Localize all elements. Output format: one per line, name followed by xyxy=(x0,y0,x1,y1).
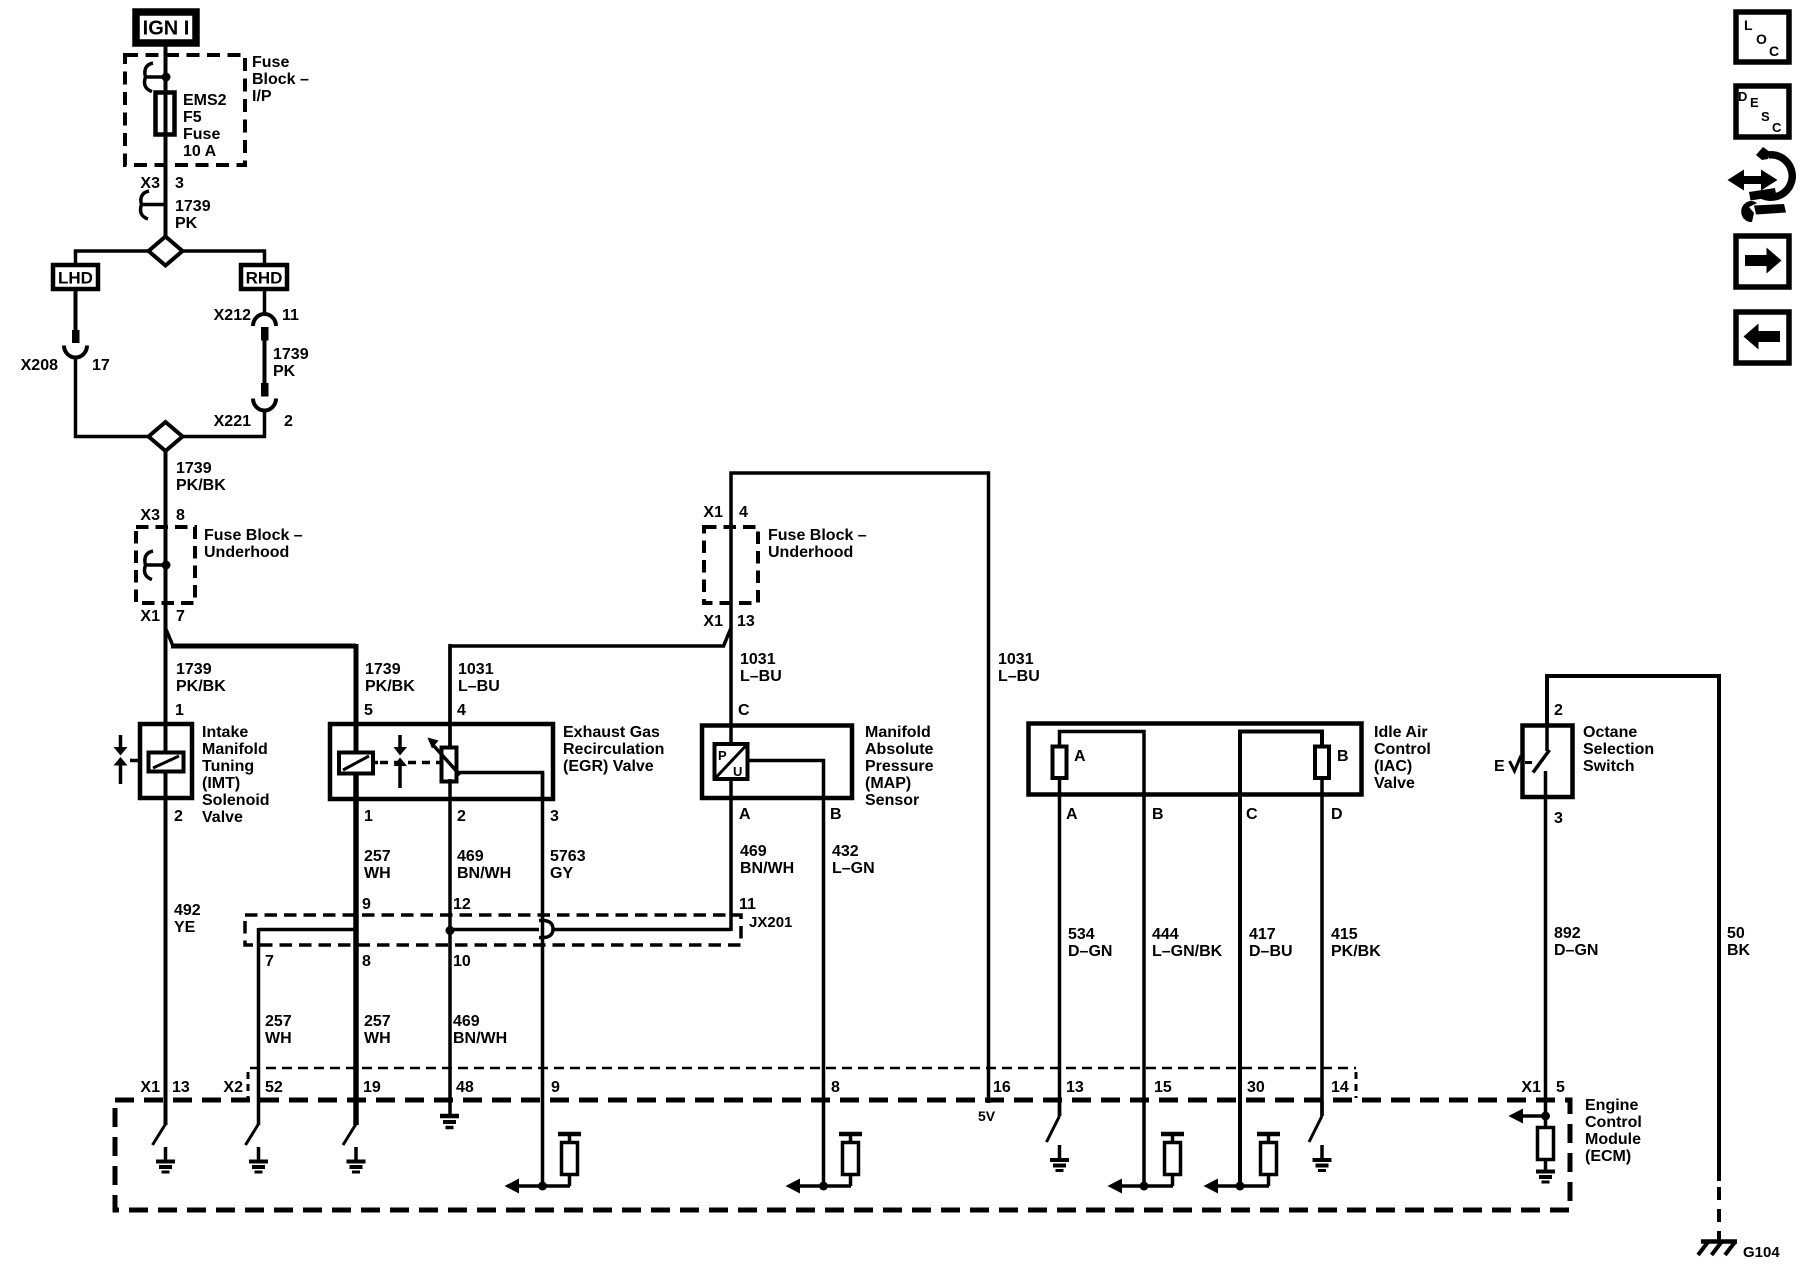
measurement arrow and dot pin X1-5 xyxy=(1509,1109,1551,1124)
svg-text:X1: X1 xyxy=(1521,1079,1541,1096)
svg-text:X208: X208 xyxy=(21,357,58,374)
wire 415 PK/BK IAC D to ECM pin 14 xyxy=(1320,778,1324,1116)
wire 257 WH EGR pin 1 to ECM pin 19 xyxy=(353,772,359,1125)
svg-text:WH: WH xyxy=(364,1030,391,1047)
svg-text:X212: X212 xyxy=(214,307,251,324)
svg-text:JX201: JX201 xyxy=(749,914,792,931)
ECM driver switch pin 19 xyxy=(343,1124,356,1145)
pin label 1 (EGR bottom) xyxy=(364,808,373,825)
svg-text:Switch: Switch xyxy=(1583,758,1635,775)
label Manifold Absolute Pressure (MAP) Sensor xyxy=(865,724,934,809)
svg-text:257: 257 xyxy=(265,1013,292,1030)
pin label 14 (ECM) xyxy=(1331,1079,1349,1096)
svg-text:7: 7 xyxy=(176,608,185,625)
IAC coil B winding xyxy=(1240,732,1329,795)
pull-up resistor pin 15 xyxy=(1161,1134,1184,1186)
ECM thick dashed outline xyxy=(115,1100,1570,1210)
svg-text:WH: WH xyxy=(364,865,391,882)
wire 469 BN/WH EGR pin 2 to ECM pin 48 xyxy=(448,779,452,1114)
svg-text:X1: X1 xyxy=(703,613,723,630)
switch actuator label E xyxy=(1494,758,1505,775)
svg-text:4: 4 xyxy=(739,504,748,521)
svg-text:Fuse Block –: Fuse Block – xyxy=(768,527,867,544)
node diamond splice top xyxy=(149,237,183,266)
svg-text:415: 415 xyxy=(1331,926,1358,943)
wire label 415 PK/BK xyxy=(1331,926,1381,960)
wire EGR pin4 into potentiometer xyxy=(448,646,452,749)
component box IAC valve xyxy=(1029,724,1362,795)
svg-text:Manifold: Manifold xyxy=(865,724,931,741)
svg-text:8: 8 xyxy=(831,1079,840,1096)
svg-text:X221: X221 xyxy=(214,413,251,430)
svg-text:D: D xyxy=(1331,806,1343,823)
wire X208 to bottom diamond xyxy=(74,358,78,439)
svg-text:RHD: RHD xyxy=(246,269,283,288)
svg-text:P: P xyxy=(718,748,727,763)
svg-text:I/P: I/P xyxy=(252,88,272,105)
connector X3 pin 3 labels xyxy=(140,175,184,192)
wire 534 D-GN IAC A to ECM pin 13 xyxy=(1058,778,1062,1116)
pull-up resistor pin 30 xyxy=(1257,1134,1280,1186)
wire branch 1031 L-BU to EGR pin 4 xyxy=(450,644,725,749)
wire 1739 PK between X212 and X221 xyxy=(263,341,267,384)
svg-text:432: 432 xyxy=(832,843,859,860)
svg-text:534: 534 xyxy=(1068,926,1095,943)
svg-text:Solenoid: Solenoid xyxy=(202,792,270,809)
svg-text:C: C xyxy=(738,702,750,719)
svg-text:10: 10 xyxy=(453,953,471,970)
wire top loop LHD/RHD horizontal xyxy=(74,249,266,253)
pin label A (IAC bottom) xyxy=(1066,806,1078,823)
pin label A (MAP bottom) xyxy=(739,806,751,823)
fuse block I/P terminal hook with junction xyxy=(145,63,171,92)
svg-text:S: S xyxy=(1761,109,1770,124)
svg-text:52: 52 xyxy=(265,1079,283,1096)
ground symbol pin X1-5 xyxy=(1536,1172,1555,1183)
svg-text:492: 492 xyxy=(174,902,201,919)
wire label 1739 PK/BK xyxy=(176,460,226,494)
svg-text:Selection: Selection xyxy=(1583,741,1654,758)
pin label 2 (octane top) xyxy=(1554,702,1563,719)
pull-down resistor pin X1-5 xyxy=(1538,1116,1554,1170)
svg-text:D–BU: D–BU xyxy=(1249,943,1293,960)
svg-text:L–BU: L–BU xyxy=(458,678,500,695)
svg-text:11: 11 xyxy=(739,896,756,913)
svg-text:X1: X1 xyxy=(140,1079,160,1096)
svg-text:892: 892 xyxy=(1554,925,1581,942)
wire 492 YE IMT pin 2 to ECM pin 13 xyxy=(164,771,168,1125)
wire octane switch pin 2 top loop and 50 BK down xyxy=(1547,676,1719,1181)
pressure transducer symbol P/U xyxy=(715,744,748,779)
svg-text:Absolute: Absolute xyxy=(865,741,934,758)
wire label 469 BN/WH (MAP A) xyxy=(740,843,794,877)
ground symbol pin 13 xyxy=(156,1147,175,1172)
nav icon arrow left xyxy=(1736,312,1789,363)
svg-text:3: 3 xyxy=(1554,810,1563,827)
svg-text:19: 19 xyxy=(363,1079,381,1096)
component box EGR valve xyxy=(330,724,553,799)
svg-text:PK: PK xyxy=(175,215,198,232)
svg-text:BN/WH: BN/WH xyxy=(453,1030,507,1047)
pin label 19 (ECM) xyxy=(363,1079,381,1096)
pin label 13 (ECM right) xyxy=(1066,1079,1084,1096)
svg-text:7: 7 xyxy=(265,953,274,970)
wire stub to LHD xyxy=(74,250,78,264)
svg-text:257: 257 xyxy=(364,848,391,865)
svg-text:C: C xyxy=(1772,120,1782,135)
wire 5763 GY EGR pin 3 to ECM pin 9 xyxy=(541,772,545,1186)
svg-text:12: 12 xyxy=(453,896,471,913)
svg-text:13: 13 xyxy=(737,613,755,630)
svg-text:1739: 1739 xyxy=(365,661,401,678)
wire main 1739 PK/BK to IMT pin 1 xyxy=(164,628,168,753)
svg-text:2: 2 xyxy=(457,808,466,825)
svg-text:C: C xyxy=(1246,806,1258,823)
ground symbol pin 14 xyxy=(1313,1145,1332,1171)
svg-text:IGN I: IGN I xyxy=(143,18,190,40)
svg-text:X1: X1 xyxy=(140,608,160,625)
svg-text:Block –: Block – xyxy=(252,71,309,88)
connector X1 pin 4 labels xyxy=(703,504,748,521)
component box IMT solenoid valve xyxy=(140,724,192,798)
measurement arrow and dot pin 9 xyxy=(505,1179,571,1194)
fuse block underhood terminal hook xyxy=(145,551,171,580)
wire label 444 L-GN/BK xyxy=(1152,926,1223,960)
measurement arrow and dot pin 8 xyxy=(786,1179,852,1194)
svg-text:3: 3 xyxy=(550,808,559,825)
connector X2 left tick xyxy=(247,1072,250,1098)
pull-up resistor pin 9 xyxy=(558,1134,581,1186)
ground symbol pin 19 xyxy=(347,1147,366,1172)
svg-text:X3: X3 xyxy=(140,507,160,524)
svg-text:PK/BK: PK/BK xyxy=(176,477,226,494)
svg-text:8: 8 xyxy=(362,953,371,970)
pin label X1 13 (ECM) xyxy=(140,1079,189,1096)
connector X208 pin 17 (bar and cup) xyxy=(64,330,87,358)
svg-text:Tuning: Tuning xyxy=(202,758,254,775)
svg-text:GY: GY xyxy=(550,865,573,882)
connector X1 pin 13 labels xyxy=(703,613,754,630)
svg-text:L–BU: L–BU xyxy=(998,668,1040,685)
svg-text:1739: 1739 xyxy=(175,198,211,215)
pin label B (MAP bottom) xyxy=(830,806,842,823)
svg-text:D: D xyxy=(1738,89,1747,104)
svg-text:13: 13 xyxy=(1066,1079,1084,1096)
wire label 1739 PK/BK (EGR branch) xyxy=(365,661,415,695)
svg-text:BN/WH: BN/WH xyxy=(457,865,511,882)
svg-text:A: A xyxy=(1074,748,1086,765)
svg-text:Valve: Valve xyxy=(1374,775,1415,792)
svg-text:Idle Air: Idle Air xyxy=(1374,724,1428,741)
power symbol IGN I xyxy=(136,12,196,43)
component box octane selection switch xyxy=(1523,726,1573,798)
pin label 8 (ECM) xyxy=(831,1079,840,1096)
nav icon arrow right xyxy=(1736,236,1789,287)
svg-text:A: A xyxy=(1066,806,1078,823)
pin label 48 (ECM) xyxy=(456,1079,474,1096)
solenoid coil EGR xyxy=(339,753,378,774)
wire label 257 WH (pin 7 branch) xyxy=(265,1013,292,1047)
wire X221 to bottom diamond xyxy=(263,411,267,439)
value label EMS2 F5 Fuse 10 A xyxy=(183,92,227,160)
wire LHD down xyxy=(74,289,78,330)
svg-text:YE: YE xyxy=(174,919,196,936)
svg-text:5V: 5V xyxy=(978,1108,996,1124)
pull-up resistor pin 8 xyxy=(839,1134,862,1186)
label Fuse Block - Underhood (right) xyxy=(768,527,867,561)
pin label 2 (EGR bottom) xyxy=(457,808,466,825)
svg-text:L–GN: L–GN xyxy=(832,860,875,877)
wire label 5763 GY xyxy=(550,848,586,882)
wire jog to branch xyxy=(166,628,174,646)
junction block JX201 dashed outline xyxy=(245,915,741,945)
svg-text:LHD: LHD xyxy=(58,269,93,288)
pin label 1 (IMT top) xyxy=(175,702,184,719)
connector X3 pin 8 labels xyxy=(140,507,185,524)
svg-text:PK/BK: PK/BK xyxy=(1331,943,1381,960)
svg-text:5: 5 xyxy=(1556,1079,1565,1096)
wire 1031 L-BU top loop (fuse block X1-4 over to ECM pin 16) xyxy=(731,473,989,1103)
svg-text:11: 11 xyxy=(282,307,299,324)
svg-text:Fuse: Fuse xyxy=(183,126,220,143)
svg-text:Intake: Intake xyxy=(202,724,248,741)
svg-text:1: 1 xyxy=(364,808,373,825)
node diamond splice bottom xyxy=(149,422,183,451)
pin label 12 (JX201 top) xyxy=(453,896,471,913)
svg-text:BN/WH: BN/WH xyxy=(740,860,794,877)
svg-text:A: A xyxy=(739,806,751,823)
pin label 3 (EGR bottom) xyxy=(550,808,559,825)
svg-text:5763: 5763 xyxy=(550,848,586,865)
wire label 257 WH (pin 8 branch) xyxy=(364,1013,391,1047)
svg-text:Valve: Valve xyxy=(202,809,243,826)
wire label 892 D-GN xyxy=(1554,925,1598,959)
solenoid coil IMT xyxy=(149,753,184,772)
svg-text:L–BU: L–BU xyxy=(740,668,782,685)
pin label 30 (ECM) xyxy=(1247,1079,1265,1096)
measurement arrow and dot pin 30 xyxy=(1204,1179,1270,1194)
svg-text:50: 50 xyxy=(1727,925,1745,942)
wire label 50 BK xyxy=(1727,925,1751,959)
wire EGR wiper to pin 3 xyxy=(458,773,543,801)
svg-text:1031: 1031 xyxy=(740,651,776,668)
svg-text:X3: X3 xyxy=(140,175,160,192)
svg-text:(IMT): (IMT) xyxy=(202,775,240,792)
svg-text:15: 15 xyxy=(1154,1079,1172,1096)
wire 469 BN/WH jumper inside JX201 (to MAP A) xyxy=(450,928,731,932)
svg-text:PK/BK: PK/BK xyxy=(365,678,415,695)
wire 257 WH JX201 pin 7 to ECM pin 52 xyxy=(257,928,261,1125)
wire label 1739 PK xyxy=(175,198,211,232)
svg-text:1739: 1739 xyxy=(176,661,212,678)
svg-text:1031: 1031 xyxy=(998,651,1034,668)
svg-text:Underhood: Underhood xyxy=(768,544,853,561)
svg-text:E: E xyxy=(1750,95,1759,110)
potentiometer EGR pintle position sensor xyxy=(428,738,461,782)
pin label 15 (ECM) xyxy=(1154,1079,1172,1096)
svg-text:Underhood: Underhood xyxy=(204,544,289,561)
pin label C (IAC bottom) xyxy=(1246,806,1258,823)
connector X221 pin 2 (bar and cup) xyxy=(253,383,276,411)
wire 417 D-BU IAC C to ECM pin 30 xyxy=(1238,793,1242,1186)
pin label 11 (JX201) xyxy=(739,896,756,913)
fuse block underhood right dashed outline xyxy=(704,527,758,603)
wire through right underhood fuse block to MAP pin C xyxy=(729,523,733,745)
pin label 8 (JX201 bottom) xyxy=(362,953,371,970)
svg-text:3: 3 xyxy=(175,175,184,192)
component box MAP sensor xyxy=(702,726,852,799)
ECM driver switch pin 13 xyxy=(153,1124,166,1145)
svg-text:B: B xyxy=(1337,748,1349,765)
pin label X1 5 (ECM) xyxy=(1521,1079,1565,1096)
svg-text:Control: Control xyxy=(1374,741,1431,758)
ECM driver switch pin 14 xyxy=(1309,1100,1322,1142)
svg-text:F5: F5 xyxy=(183,109,202,126)
dashed actuation link EGR xyxy=(380,761,440,765)
net label 5V xyxy=(978,1108,996,1124)
wire label 257 WH (upper) xyxy=(364,848,391,882)
label Idle Air Control (IAC) Valve xyxy=(1374,724,1431,792)
wire bottom loop horizontal xyxy=(74,435,266,439)
pin label 10 (JX201 bottom) xyxy=(453,953,471,970)
valve arrows (EGR) xyxy=(394,735,408,788)
pin label 2 (IMT bottom) xyxy=(174,808,183,825)
wire 444 L-GN/BK IAC B to ECM pin 15 xyxy=(1142,793,1146,1186)
pin label 16 (ECM) xyxy=(993,1079,1011,1096)
svg-text:9: 9 xyxy=(551,1079,560,1096)
pin label D (IAC bottom) xyxy=(1331,806,1343,823)
svg-text:B: B xyxy=(1152,806,1164,823)
wire 469 BN/WH MAP pin A to JX201 pin 11 xyxy=(729,779,733,931)
svg-text:Exhaust Gas: Exhaust Gas xyxy=(563,724,660,741)
connector X221 labels xyxy=(214,413,293,430)
nav icon DESC xyxy=(1736,86,1789,137)
svg-text:8: 8 xyxy=(176,507,185,524)
svg-text:BK: BK xyxy=(1727,942,1751,959)
pin label 9 (JX201 top) xyxy=(362,896,371,913)
svg-text:X2: X2 xyxy=(223,1079,243,1096)
svg-text:1739: 1739 xyxy=(273,346,309,363)
valve arrows (IMT, outside box) xyxy=(114,735,140,784)
label Engine Control Module (ECM) xyxy=(1585,1097,1642,1165)
label Exhaust Gas Recirculation (EGR) Valve xyxy=(563,724,664,775)
svg-text:X1: X1 xyxy=(703,504,723,521)
IAC coil B label xyxy=(1337,748,1349,765)
wire label 1031 L-BU (EGR pin 4 branch) xyxy=(458,661,500,695)
svg-text:U: U xyxy=(733,764,742,779)
fuse EMS2 F5 10A xyxy=(156,93,175,135)
svg-text:(ECM): (ECM) xyxy=(1585,1148,1631,1165)
wire label 492 YE xyxy=(174,902,201,936)
ground label G104 xyxy=(1743,1244,1780,1261)
svg-text:(EGR) Valve: (EGR) Valve xyxy=(563,758,654,775)
wire label 1739 PK/BK (IMT branch) xyxy=(176,661,226,695)
option box LHD xyxy=(53,265,98,289)
wire label 1031 L-BU (5V reference) xyxy=(998,651,1040,685)
svg-text:O: O xyxy=(1756,31,1767,47)
svg-text:WH: WH xyxy=(265,1030,292,1047)
svg-text:Fuse Block –: Fuse Block – xyxy=(204,527,303,544)
pin label 5 (EGR top) xyxy=(364,702,373,719)
label Intake Manifold Tuning (IMT) Solenoid Valve xyxy=(202,724,270,826)
ground symbol pin 13 right xyxy=(1050,1145,1069,1171)
wire label 1031 L-BU (MAP C) xyxy=(740,651,782,685)
svg-text:Sensor: Sensor xyxy=(865,792,919,809)
pin label 4 (EGR top) xyxy=(457,702,466,719)
svg-text:D–GN: D–GN xyxy=(1068,943,1112,960)
svg-text:469: 469 xyxy=(453,1013,480,1030)
svg-text:PK/BK: PK/BK xyxy=(176,678,226,695)
svg-text:Manifold: Manifold xyxy=(202,741,268,758)
wire branch 1739 PK/BK to EGR pin 5 xyxy=(171,644,356,753)
connector X212 pin 11 (arch and bar) xyxy=(253,289,276,341)
svg-text:(IAC): (IAC) xyxy=(1374,758,1412,775)
svg-text:2: 2 xyxy=(1554,702,1563,719)
IAC coil A winding xyxy=(1053,732,1145,795)
svg-text:B: B xyxy=(830,806,842,823)
fuse block underhood left dashed outline xyxy=(136,527,195,603)
connector X212 labels xyxy=(214,307,299,324)
option box RHD xyxy=(241,265,287,289)
connector X2 thin dashed boundary xyxy=(250,1067,1356,1070)
svg-text:Control: Control xyxy=(1585,1114,1642,1131)
svg-text:G104: G104 xyxy=(1743,1244,1780,1261)
wire label 469 BN/WH (upper) xyxy=(457,848,511,882)
crossover hop over 5763 GY wire xyxy=(539,920,553,937)
connector X208 labels xyxy=(21,357,110,374)
svg-text:13: 13 xyxy=(172,1079,190,1096)
svg-text:469: 469 xyxy=(457,848,484,865)
svg-text:469: 469 xyxy=(740,843,767,860)
nav icon LOC xyxy=(1736,12,1789,62)
svg-text:EMS2: EMS2 xyxy=(183,92,227,109)
pin label 3 (octane bottom) xyxy=(1554,810,1563,827)
connector X2 label xyxy=(223,1079,243,1096)
connector X2 right tick xyxy=(1355,1072,1358,1098)
svg-text:444: 444 xyxy=(1152,926,1179,943)
connector X1 pin 7 labels xyxy=(140,608,185,625)
wire 432 L-GN MAP pin B to ECM pin 8 xyxy=(822,798,826,1186)
wire 892 D-GN octane pin 3 to ECM X1-5 xyxy=(1544,796,1548,1116)
svg-text:Module: Module xyxy=(1585,1131,1641,1148)
svg-text:2: 2 xyxy=(284,413,293,430)
svg-text:L: L xyxy=(1744,17,1753,33)
wire label 469 BN/WH (pin 10 branch) xyxy=(453,1013,507,1047)
pin label 9 (ECM) xyxy=(551,1079,560,1096)
ground symbol pin 52 xyxy=(249,1147,268,1172)
wire MAP internal to pin B xyxy=(748,761,824,800)
svg-text:16: 16 xyxy=(993,1079,1011,1096)
wire label 1739 PK (right branch) xyxy=(273,346,309,380)
svg-text:Octane: Octane xyxy=(1583,724,1637,741)
ECM driver switch pin 52 xyxy=(246,1124,259,1145)
svg-text:C: C xyxy=(1769,43,1779,59)
IAC coil A label xyxy=(1074,748,1086,765)
svg-text:4: 4 xyxy=(457,702,466,719)
svg-text:9: 9 xyxy=(362,896,371,913)
wire IGN I to diamond node (1739 PK feed) xyxy=(164,46,168,237)
svg-text:1031: 1031 xyxy=(458,661,494,678)
ECM driver switch pin 13 right xyxy=(1047,1100,1060,1142)
svg-text:5: 5 xyxy=(364,702,373,719)
measurement arrow and dot pin 15 xyxy=(1108,1179,1174,1194)
pin label B (IAC bottom) xyxy=(1152,806,1164,823)
svg-text:257: 257 xyxy=(364,1013,391,1030)
wire label 432 L-GN xyxy=(832,843,875,877)
svg-text:Recirculation: Recirculation xyxy=(563,741,664,758)
svg-text:Engine: Engine xyxy=(1585,1097,1638,1114)
label Fuse Block - I/P xyxy=(252,54,309,105)
